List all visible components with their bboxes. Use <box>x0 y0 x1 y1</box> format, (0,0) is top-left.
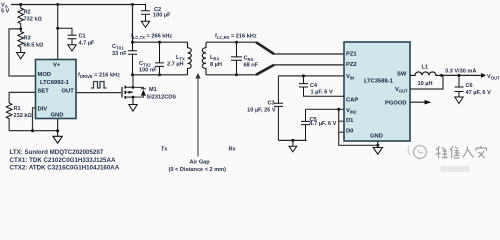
node VA 5V label <box>1 3 10 15</box>
svg-text:VOUT: VOUT <box>487 74 500 81</box>
wire tank top rail <box>133 41 188 43</box>
svg-text:VOUT: VOUT <box>395 87 408 94</box>
ground C3 C5 <box>289 140 297 152</box>
air gap arrow <box>195 73 200 157</box>
resistor R1 <box>6 103 32 131</box>
svg-text:GND: GND <box>51 113 64 119</box>
wire gnd rail C3 C5 <box>278 139 306 141</box>
svg-text:D1: D1 <box>346 118 354 124</box>
node junction R2 top <box>19 3 22 6</box>
svg-text:OUT: OUT <box>62 89 75 95</box>
svg-text:LTC6992-1: LTC6992-1 <box>40 80 70 86</box>
svg-text:10 µF, 25 V: 10 µF, 25 V <box>247 108 276 114</box>
svg-text:SW: SW <box>397 71 407 77</box>
svg-text:Si2312CDS: Si2312CDS <box>147 95 177 101</box>
svg-text:CTX1: CTX1 <box>112 44 124 51</box>
wire OUT gate drive <box>76 92 121 94</box>
IC U1 LTC6992-1 <box>36 60 77 119</box>
svg-text:3.3 V/30 mA: 3.3 V/30 mA <box>445 69 476 75</box>
transistor M1 <box>122 75 176 105</box>
wire DIV <box>33 108 36 131</box>
svg-text:5 V: 5 V <box>1 9 10 15</box>
svg-text:33 nF: 33 nF <box>112 51 127 57</box>
svg-text:10 µH: 10 µH <box>418 81 433 87</box>
svg-text:47 µF, 6 V: 47 µF, 6 V <box>466 90 492 96</box>
svg-text:D0: D0 <box>346 129 353 135</box>
svg-text:CRX: CRX <box>244 56 254 63</box>
svg-text:PGOOD: PGOOD <box>385 101 407 107</box>
svg-text:4.7 µF, 6 V: 4.7 µF, 6 V <box>310 121 337 127</box>
capacitor C2 <box>131 3 171 21</box>
wire Rx bottom rail <box>206 74 256 76</box>
wire V+ supply <box>56 3 59 6</box>
svg-text:LRX: LRX <box>210 55 219 62</box>
svg-text:fDRIVE = 216 kHz: fDRIVE = 216 kHz <box>78 73 120 80</box>
svg-text:VIN2: VIN2 <box>346 108 357 115</box>
svg-text:732 kΩ: 732 kΩ <box>24 17 43 23</box>
wire VIN <box>278 75 344 77</box>
svg-text:C1: C1 <box>79 34 86 40</box>
svg-text:Air Gap: Air Gap <box>190 160 211 166</box>
wire 5V feed to tank <box>132 5 134 43</box>
node divider junction <box>19 27 22 30</box>
svg-text:CAP: CAP <box>346 98 358 104</box>
svg-text:LTX: Sunlord MDQTC2020052II7: LTX: Sunlord MDQTC2020052II7 <box>10 149 104 156</box>
wire GND pin U2 <box>377 141 379 148</box>
svg-text:68.5 kΩ: 68.5 kΩ <box>24 43 45 49</box>
svg-text:C6: C6 <box>466 83 473 89</box>
watermark text <box>436 146 487 158</box>
capacitor CTX2 <box>139 42 164 75</box>
transformer secondary LRX <box>202 42 222 75</box>
svg-text:LTC3588-1: LTC3588-1 <box>364 79 394 85</box>
ground M1 <box>129 105 137 112</box>
IC U2 LTC3588-1 <box>344 42 410 141</box>
capacitor CTX1 <box>112 42 137 75</box>
svg-text:L1: L1 <box>422 65 429 71</box>
resistor R3 <box>18 29 44 49</box>
ground C2 <box>141 21 149 27</box>
wire output to VOUT <box>442 74 483 76</box>
svg-text:100 nF: 100 nF <box>139 68 157 74</box>
wire VIN2 D1 D0 tie <box>306 109 378 145</box>
svg-text:100 µF: 100 µF <box>153 13 171 19</box>
wire bottom gnd rail <box>9 130 58 132</box>
wire Rx top rail <box>206 41 256 43</box>
capacitor C5 <box>301 109 337 140</box>
ground U2 <box>373 148 382 155</box>
svg-text:(0 < Distance < 2 mm): (0 < Distance < 2 mm) <box>169 167 227 173</box>
svg-text:68 nF: 68 nF <box>244 63 259 69</box>
wire VOUT pin up <box>410 75 443 89</box>
svg-text:PZ1: PZ1 <box>346 52 357 58</box>
svg-text:fLC,TX = 266 kHz: fLC,TX = 266 kHz <box>131 34 172 41</box>
inductor L1 <box>410 65 442 87</box>
ground R3 <box>17 49 25 59</box>
svg-text:CTX1: TDK C2102C0G1H333J125AA: CTX1: TDK C2102C0G1H333J125AA <box>10 157 116 164</box>
svg-text:PZ2: PZ2 <box>346 62 357 68</box>
capacitor CRX <box>231 42 259 75</box>
svg-text:V+: V+ <box>53 63 61 69</box>
svg-text:2.7 µH: 2.7 µH <box>167 62 184 68</box>
ground C1 <box>68 45 76 51</box>
capacitor C4 <box>299 74 344 96</box>
watermark logo <box>408 146 426 159</box>
svg-text:CTX2: ATDK C3216C0G1H104J160AA: CTX2: ATDK C3216C0G1H104J160AA <box>10 165 120 172</box>
svg-text:8 µH: 8 µH <box>210 62 222 68</box>
label VOUT arrow <box>481 73 486 78</box>
wire taper to PZ1 <box>256 42 274 54</box>
svg-text:VIN: VIN <box>346 74 354 81</box>
svg-text:DIV: DIV <box>38 107 48 113</box>
capacitor C1 <box>56 27 95 47</box>
svg-text:1 µF, 6 V: 1 µF, 6 V <box>311 90 333 96</box>
wire taper to PZ2 <box>256 65 274 75</box>
wire tank bottom rail <box>133 74 188 76</box>
svg-text:fLC,RX = 216 kHz: fLC,RX = 216 kHz <box>215 34 257 41</box>
svg-text:M1: M1 <box>149 87 157 93</box>
wire top 5V rail <box>11 4 133 6</box>
svg-text:232 kΩ: 232 kΩ <box>14 113 33 119</box>
svg-text:SET: SET <box>38 89 50 95</box>
wire SET <box>9 92 35 103</box>
watermark smudge <box>440 166 470 172</box>
svg-text:C4: C4 <box>310 83 318 89</box>
svg-text:Tx: Tx <box>161 147 168 153</box>
svg-text:MOD: MOD <box>38 72 52 78</box>
wire PGOOD arrow <box>410 101 425 103</box>
wire divider to MOD <box>9 29 36 76</box>
svg-text:4.7 µF: 4.7 µF <box>79 41 96 47</box>
wire GND pin <box>57 119 59 137</box>
svg-text:GND: GND <box>370 134 383 140</box>
svg-text:R3: R3 <box>24 36 31 42</box>
capacitor C6 <box>455 74 492 97</box>
transformer primary LTX <box>167 42 191 75</box>
svg-text:R1: R1 <box>14 106 21 112</box>
node output junction <box>440 74 443 77</box>
capacitor C3 <box>247 76 283 140</box>
ground C6 <box>455 97 463 104</box>
square wave symbol <box>91 82 107 89</box>
resistor R2 <box>18 5 43 29</box>
svg-text:Rx: Rx <box>229 147 237 153</box>
svg-text:C3: C3 <box>267 101 274 107</box>
ground U1 <box>53 136 62 143</box>
svg-text:R2: R2 <box>24 10 31 16</box>
